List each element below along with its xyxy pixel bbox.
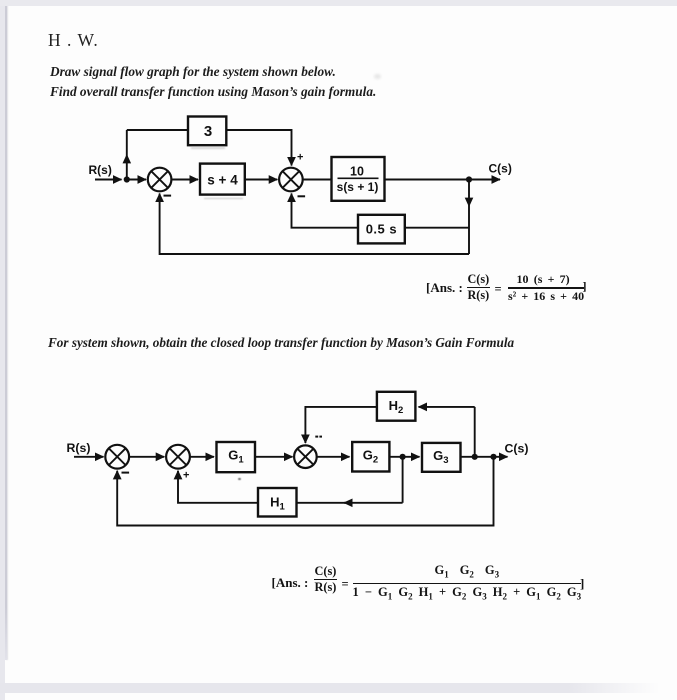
scan bottom band [0,683,660,693]
minus sign at T1 [122,472,130,474]
node output takeoff dot [466,176,472,182]
faint scan smudge near line1 [374,74,381,79]
block G3 [422,443,461,472]
wire H1 right segment with mid arrow [344,502,403,504]
minus sign at S2 [298,195,306,197]
problem line 2 [50,84,376,100]
wire 0.5s feedback left segment into S2 [292,194,359,228]
svg-text:R(s): R(s) [67,441,91,455]
wire R(s) input arrow [95,179,122,181]
answer 1: [Ans.: C(s)/R(s) = 10(s+7)/(s^2+16s+40)] [426,280,463,296]
block 3 [188,117,226,146]
wire G3 to output C(s) [461,456,508,458]
wire T2 to block G1 [190,456,214,458]
wire node to summing junction 1 [127,179,146,181]
wire H2 takeoff up [474,407,476,457]
svg-text:H2: H2 [389,398,404,416]
block s+4 [200,164,245,195]
minus sign at S1 [164,195,172,197]
svg-text:0.5 s: 0.5 s [366,222,397,237]
wire outer feedback bottom [160,194,469,255]
heading H . W. [48,30,99,51]
block G2 [352,442,389,472]
svg-text:s + 4: s + 4 [207,172,238,187]
summing junction T3 [294,445,317,468]
wire top branch left [127,129,188,131]
problem line 1 [50,64,336,80]
block H1 [258,488,297,517]
svg-text:+: + [297,152,303,164]
wire G2 to block G3 [389,456,419,458]
block G1 [217,442,256,472]
svg-text:C(s): C(s) [489,162,512,176]
svg-text:+: + [183,470,189,482]
scan left edge line [5,0,7,660]
wire output down takeoff [468,180,470,255]
block 0.5s [358,215,405,244]
svg-text:G1: G1 [228,448,244,466]
wire H2 left segment into T3 [305,407,377,443]
node output takeoff dot [490,454,496,460]
scan left edge strip [0,0,5,700]
wire 0.5s feedback right segment [405,227,469,229]
node input takeoff dot [124,176,130,182]
wire H1 takeoff down from node after G2 [402,457,404,503]
svg-text:3: 3 [204,123,212,140]
wire R(s) input arrow [74,456,104,458]
summing junction T1 [105,445,129,469]
minus sign at T3 [315,436,322,438]
wire T1 to T2 [129,456,164,458]
summing junction S2 [279,168,303,192]
answer 2: [Ans.: C(s)/R(s) = G1G2G3 / (1 - G1G2H1 + G2G3H2 + G1G2G3)] [272,575,309,591]
wire H1 right segment cont [297,502,350,504]
summing junction T2 [166,445,190,469]
arrowhead down on output takeoff [465,198,474,207]
arrowhead up on takeoff [123,154,132,163]
node after G3 dot [472,454,478,460]
scan top band [0,0,677,6]
wire block to output C(s) [385,179,501,181]
wire T3 to block G2 [317,456,350,458]
wire H2 right segment into block [419,406,475,408]
svg-text:G2: G2 [363,448,378,466]
svg-text:R(s): R(s) [89,163,112,177]
faint speck under block G1 [238,478,241,481]
wire outer feedback loop into T1 [117,457,493,526]
svg-text:G3: G3 [433,448,448,466]
svg-text:C(s): C(s) [505,441,529,455]
svg-text:H1: H1 [270,495,285,513]
wire S1 to block s+4 [171,179,198,181]
wire H1 left segment into T2 [178,471,258,503]
block H2 [377,392,416,421]
block 10/s(s+1) [332,157,385,201]
wire s+4 to summing junction 2 [245,179,277,181]
problem line 3 [48,335,514,351]
wire feedforward takeoff up [126,130,128,180]
faint echo under block s+4 [204,198,243,200]
wire S2 to block 10/s(s+1) [303,179,331,181]
wire top branch right [226,130,291,166]
svg-text:10: 10 [350,164,364,178]
wire G1 to summing junction T3 [255,456,293,458]
faint echo under block 3 [191,147,225,149]
svg-text:s(s + 1): s(s + 1) [337,180,379,194]
summing junction S1 [148,168,172,192]
node after G2 dot [400,454,406,460]
